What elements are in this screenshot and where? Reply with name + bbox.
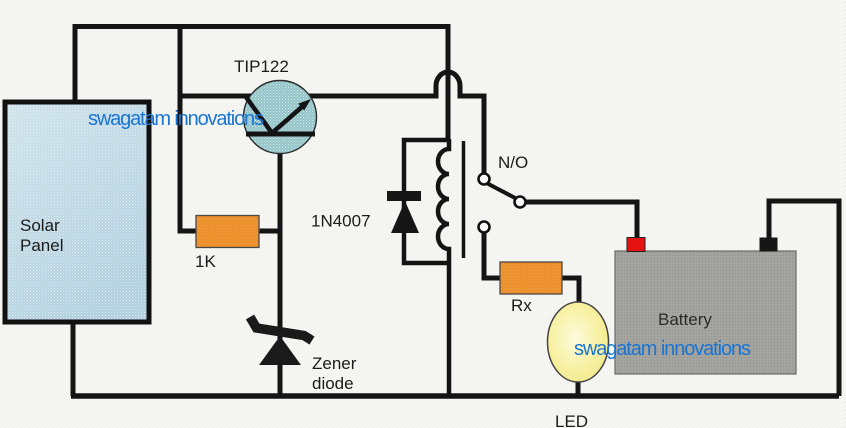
svg-text:1N4007: 1N4007 [311,212,371,231]
svg-text:Solar: Solar [20,216,60,235]
svg-text:Rx: Rx [511,296,532,315]
wire: 1K to emitter line [259,229,280,234]
wire: right riser and battery negative lead [769,201,839,396]
svg-text:TIP122: TIP122 [234,57,289,76]
svg-text:diode: diode [312,374,354,393]
relay core bar [462,141,466,258]
wire: emitter / zener line to ground bus [278,132,283,396]
svg-text:LED: LED [555,412,588,428]
svg-text:N/O: N/O [498,153,528,172]
wire: bottom ground bus [71,393,839,399]
LED [548,302,609,382]
svg-text:swagatam innovations: swagatam innovations [574,338,751,360]
transistor Q1 TIP122 [244,81,317,154]
wire: base riser to 1K resistor [180,29,196,231]
contact throw circle [515,197,526,208]
battery [615,251,796,374]
battery negative terminal [760,238,778,252]
contact lower circle [479,222,490,233]
wire: LED to ground bus [576,379,581,396]
resistor 1K [196,216,259,248]
wire: base wire into transistor [180,94,252,99]
battery positive terminal [627,238,645,252]
zener diode [250,317,312,365]
wire: solar panel bottom to ground bus [71,321,76,396]
wire: left riser, top bus, relay riser [75,27,448,142]
relay contact blade [488,184,517,199]
wire: N/O to battery positive [525,202,637,240]
svg-text:1K: 1K [195,252,216,271]
svg-text:Zener: Zener [312,354,357,373]
svg-text:Panel: Panel [20,236,63,255]
relay coil [438,139,449,396]
wire: collector wire with hop to N/O pole [309,72,484,175]
svg-text:swagatam innovations: swagatam innovations [88,108,264,130]
svg-text:Battery: Battery [658,310,712,329]
resistor Rx [500,262,562,294]
wire: lower contact to Rx [484,232,501,278]
solar panel [5,102,149,322]
contact pole circle [479,174,490,185]
relay coil box [404,140,449,263]
diode 1N4007 [387,191,421,233]
wire: Rx to LED [562,278,579,305]
